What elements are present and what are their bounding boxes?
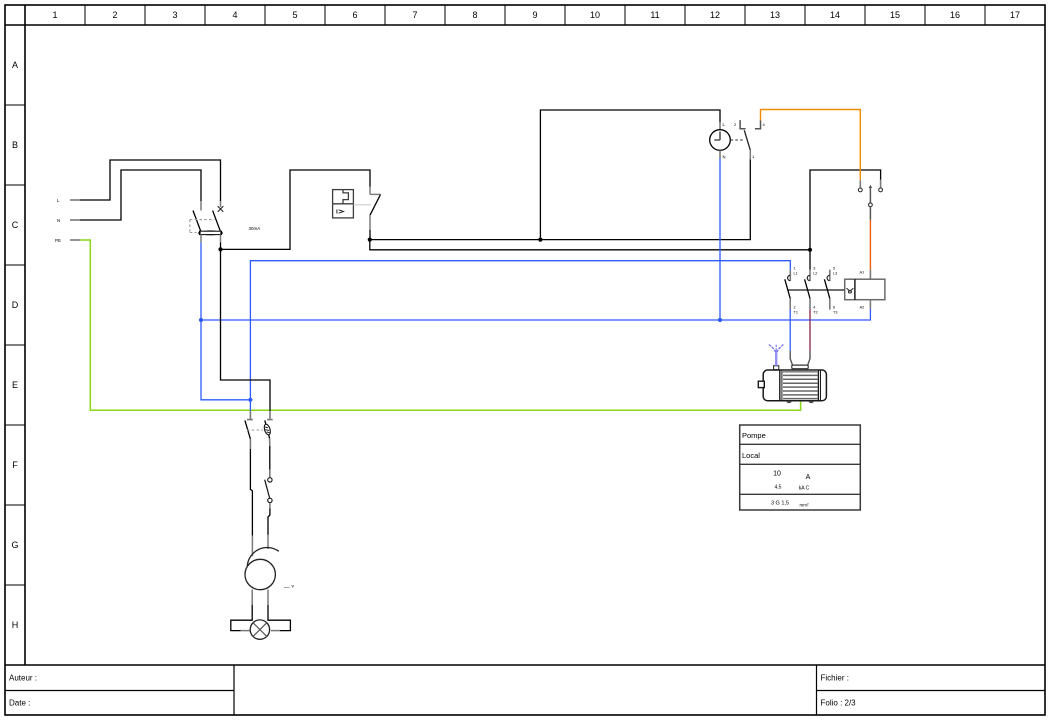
svg-text:kA C: kA C	[799, 486, 810, 492]
svg-text:9: 9	[532, 10, 537, 20]
contactor pole 1	[785, 267, 798, 315]
lamp E1	[250, 620, 269, 639]
svg-text:5: 5	[292, 10, 297, 20]
svg-text:10: 10	[773, 471, 781, 478]
contactor pole 3	[824, 267, 837, 315]
wire orange timer to selector	[761, 110, 861, 181]
svg-text:2: 2	[112, 10, 117, 20]
svg-text:4: 4	[813, 306, 815, 310]
svg-text:10: 10	[590, 10, 600, 20]
label box Pompe	[740, 425, 861, 510]
svg-text:6: 6	[352, 10, 357, 20]
svg-text:15: 15	[890, 10, 900, 20]
svg-text:L1: L1	[794, 272, 798, 276]
wire bus B y=249.8 to contactor L2	[370, 170, 881, 270]
RCD 30mA	[190, 201, 260, 243]
svg-text:A1: A1	[860, 270, 866, 275]
svg-text:T2: T2	[813, 311, 817, 315]
svg-text:3 G 1,5: 3 G 1,5	[771, 501, 789, 507]
svg-text:12: 12	[710, 10, 720, 20]
svg-text:3: 3	[813, 267, 815, 271]
svg-text:C: C	[12, 220, 19, 230]
svg-text:4: 4	[232, 10, 237, 20]
wire PE green	[80, 240, 801, 410]
svg-text:N: N	[57, 218, 60, 223]
svg-text:A: A	[12, 60, 18, 70]
svg-text:B: B	[12, 140, 18, 150]
wire black switch right down	[269, 446, 271, 470]
wire black to switch right pole	[221, 249, 271, 411]
wire bus A y=239.6 breaker out to timer contact	[368, 159, 751, 242]
svg-text:F: F	[12, 460, 18, 470]
svg-text:H: H	[12, 620, 19, 630]
svg-text:6: 6	[833, 306, 835, 310]
wire to socket left	[251, 536, 253, 557]
svg-text:11: 11	[650, 10, 659, 20]
svg-text:A2: A2	[860, 305, 866, 310]
svg-text:T1: T1	[794, 311, 798, 315]
motor cable funnel	[790, 351, 810, 365]
svg-text:1: 1	[794, 267, 796, 271]
svg-text:4,5: 4,5	[775, 485, 782, 491]
svg-text:Folio : 2/3: Folio : 2/3	[821, 699, 857, 708]
wires socket to lamp	[231, 590, 291, 631]
svg-text:3: 3	[172, 10, 177, 20]
svg-text:Date :: Date :	[9, 699, 30, 708]
svg-text:Fichier :: Fichier :	[821, 674, 849, 683]
svg-text:N: N	[723, 155, 726, 160]
svg-text:E: E	[12, 380, 18, 390]
contactor pole 2	[805, 267, 818, 315]
svg-text:L3: L3	[833, 272, 837, 276]
svg-text:Pompe: Pompe	[742, 431, 766, 440]
wire black switch left down	[250, 449, 252, 536]
svg-text:16: 16	[950, 10, 960, 20]
wire L to RCD	[80, 160, 221, 201]
svg-text:14: 14	[830, 10, 840, 20]
svg-text:2: 2	[794, 306, 796, 310]
wire blue T1 to motor	[789, 309, 791, 350]
node L input	[57, 198, 80, 203]
svg-text:Auteur :: Auteur :	[9, 674, 37, 683]
svg-text:A: A	[806, 474, 811, 481]
water spray	[769, 344, 784, 366]
svg-text:D: D	[12, 300, 19, 310]
node PE input	[55, 238, 80, 243]
wire dark red T2 to motor	[809, 309, 811, 350]
svg-text:30mA: 30mA	[249, 226, 261, 231]
timer changeover contact	[734, 120, 766, 159]
switch S2 (interrupteur)	[245, 411, 273, 449]
contact (lamp switch)	[265, 470, 272, 509]
svg-text:Local: Local	[742, 451, 760, 460]
wire blue branch to L1 and switch	[250, 261, 790, 411]
wire timer N blue	[718, 158, 722, 322]
svg-text:8: 8	[472, 10, 477, 20]
wire to socket right	[268, 509, 270, 535]
svg-text:13: 13	[770, 10, 780, 20]
svg-text:G: G	[11, 540, 18, 550]
svg-text:—: —	[284, 585, 290, 591]
wire blue RCD neutral down	[201, 243, 252, 402]
selector switch	[858, 180, 882, 220]
wire loop to timer L	[540, 110, 720, 240]
breaker (disjoncteur)	[333, 187, 381, 240]
wire orange to coil A1	[860, 220, 871, 279]
socket outlet	[245, 548, 294, 591]
wire N to RCD	[80, 170, 201, 220]
node N input	[57, 218, 80, 223]
svg-text:5: 5	[833, 267, 835, 271]
contactor coil KM1	[788, 279, 885, 309]
svg-text:mm²: mm²	[800, 503, 809, 508]
svg-text:PE: PE	[55, 238, 61, 243]
pump motor M1	[758, 365, 826, 403]
wire RCD out to breaker	[218, 170, 370, 251]
svg-text:L2: L2	[813, 272, 817, 276]
wire blue coil A2 to neutral bus	[199, 309, 871, 322]
svg-text:7: 7	[412, 10, 417, 20]
svg-text:1: 1	[52, 10, 57, 20]
svg-text:17: 17	[1010, 10, 1020, 20]
title block	[5, 665, 1045, 715]
timer clock H1	[710, 122, 745, 160]
svg-text:T3: T3	[833, 311, 837, 315]
